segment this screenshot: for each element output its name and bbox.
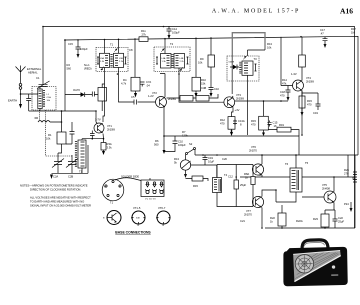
svg-text:R24: R24 bbox=[344, 168, 349, 172]
svg-text:4.7k: 4.7k bbox=[121, 82, 127, 86]
trimmer C1 bbox=[37, 81, 50, 89]
svg-text:2N408: 2N408 bbox=[322, 187, 330, 191]
IF transformer T4 detector bbox=[227, 56, 259, 81]
svg-text:R14: R14 bbox=[282, 78, 287, 82]
svg-text:C15: C15 bbox=[68, 42, 73, 46]
wavy pointer line bbox=[115, 178, 150, 181]
cap C7B bbox=[90, 131, 95, 139]
svg-text:R1: R1 bbox=[48, 133, 52, 137]
wire osc coil top to emitter join bbox=[82, 139, 104, 140]
svg-text:27k: 27k bbox=[142, 33, 147, 37]
svg-text:R12: R12 bbox=[220, 118, 225, 122]
svg-text:P24: P24 bbox=[344, 202, 349, 206]
svg-text:470: 470 bbox=[251, 123, 256, 127]
transistor VT7 bbox=[244, 196, 264, 216]
wire VT4 emitter along bbox=[302, 93, 318, 100]
wide resistor pair R8 R9 bbox=[180, 96, 193, 102]
notes text bbox=[20, 184, 91, 208]
svg-text:R9: R9 bbox=[200, 57, 204, 61]
svg-text:SIGNAL INPUT ON A 20,000 OHMS/: SIGNAL INPUT ON A 20,000 OHMS/VOLT METER bbox=[30, 204, 91, 208]
transistor VT5 bbox=[322, 183, 336, 203]
svg-text:100μF: 100μF bbox=[178, 143, 186, 147]
switch S2 bbox=[186, 153, 188, 155]
grille texture bbox=[295, 252, 340, 279]
svg-text:+4V: +4V bbox=[235, 108, 240, 112]
cap C14 on top rail bbox=[167, 26, 172, 35]
base connection circle 2 bbox=[131, 206, 146, 227]
wire VT4 collector to audio bbox=[301, 91, 303, 136]
wire detector rail bbox=[164, 136, 299, 155]
svg-text:R10: R10 bbox=[201, 78, 206, 82]
svg-text:R8A: R8A bbox=[244, 172, 249, 176]
output transformer T6 bbox=[285, 162, 302, 192]
svg-text:120k: 120k bbox=[182, 134, 188, 138]
wire second rail bbox=[65, 36, 358, 155]
base connection circle 1 bbox=[103, 211, 121, 226]
svg-text:T6: T6 bbox=[285, 162, 289, 166]
volume pot R13 bbox=[174, 157, 191, 170]
svg-text:L5B: L5B bbox=[119, 58, 123, 60]
svg-text:OA79: OA79 bbox=[229, 61, 235, 64]
resistor R15B bbox=[259, 116, 269, 130]
svg-text:R23: R23 bbox=[313, 217, 318, 221]
svg-text:100μF: 100μF bbox=[172, 31, 180, 35]
svg-text:VT1: VT1 bbox=[107, 124, 112, 128]
svg-text:C18: C18 bbox=[280, 90, 285, 94]
svg-text:1-2V: 1-2V bbox=[148, 94, 154, 98]
VT7 base stub bbox=[252, 201, 254, 203]
svg-text:C5: C5 bbox=[131, 95, 135, 99]
svg-text:2N269: 2N269 bbox=[306, 80, 314, 84]
svg-text:A.W.A. MODEL 157-P: A.W.A. MODEL 157-P bbox=[212, 9, 300, 15]
svg-text:ALL VOLTAGES ARE NEGATIVE WITH: ALL VOLTAGES ARE NEGATIVE WITH RESPECT bbox=[30, 196, 91, 200]
wire VT7 collector bbox=[262, 190, 276, 228]
svg-text:R11: R11 bbox=[141, 29, 146, 33]
wire audio mid rail bbox=[240, 176, 355, 178]
wire VT4 collector bbox=[301, 37, 303, 81]
svg-text:C12: C12 bbox=[228, 175, 233, 179]
svg-text:NOTES—ARROWS ON POTENTIOMETERS: NOTES—ARROWS ON POTENTIOMETERS INDICATE bbox=[20, 184, 88, 188]
svg-text:R17: R17 bbox=[351, 27, 356, 31]
resistor R3 bbox=[98, 88, 107, 102]
svg-text:VT5: VT5 bbox=[322, 183, 327, 187]
wire T4 primary top bbox=[248, 50, 266, 56]
svg-text:R3A: R3A bbox=[107, 142, 112, 146]
svg-text:470: 470 bbox=[280, 94, 285, 98]
svg-text:VT6: VT6 bbox=[251, 145, 256, 149]
radio knob bbox=[332, 265, 335, 268]
svg-text:C2B: C2B bbox=[68, 175, 73, 179]
wire VT3 collector bbox=[231, 96, 234, 97]
mixer base rail bbox=[29, 110, 96, 112]
svg-text:1k: 1k bbox=[270, 220, 273, 224]
svg-text:C19: C19 bbox=[208, 156, 213, 160]
radio dial bbox=[295, 254, 314, 273]
grille diagonal trim bbox=[294, 256, 342, 282]
wire T4 bottom to detector rail bbox=[247, 75, 249, 135]
svg-text:8: 8 bbox=[240, 123, 242, 127]
svg-text:2N269: 2N269 bbox=[168, 97, 176, 101]
svg-text:R13: R13 bbox=[267, 42, 272, 46]
VT3 emitter resistor R12 bbox=[232, 108, 234, 117]
svg-text:T2: T2 bbox=[170, 42, 174, 46]
svg-text:47k: 47k bbox=[282, 82, 287, 86]
svg-text:B: B bbox=[163, 225, 165, 227]
wire audio supply rail bbox=[195, 154, 358, 156]
resistor R1 bbox=[57, 132, 66, 144]
svg-text:C17: C17 bbox=[320, 28, 325, 32]
VT4 emitter resistor bbox=[301, 91, 303, 97]
transistor VT6 bbox=[249, 145, 264, 176]
svg-text:R13: R13 bbox=[174, 157, 179, 161]
aerial coil L1 assembly bbox=[32, 87, 56, 111]
svg-text:C10: C10 bbox=[178, 140, 183, 144]
svg-text:25μF: 25μF bbox=[338, 220, 345, 224]
wire antenna to coil bbox=[21, 93, 38, 95]
cap C20 bbox=[203, 155, 208, 165]
cap C22 bbox=[333, 215, 338, 225]
wire audio bottom rail bbox=[265, 227, 355, 229]
svg-text:2N270: 2N270 bbox=[244, 213, 252, 217]
svg-text:C7A: C7A bbox=[146, 80, 151, 84]
wire T5 secondary to VT6 VT7 bases bbox=[217, 165, 253, 207]
resistor R23 bbox=[321, 214, 329, 227]
svg-text:R2: R2 bbox=[67, 63, 71, 67]
radio body bbox=[283, 247, 348, 287]
svg-text:1-3V: 1-3V bbox=[291, 72, 297, 76]
svg-text:EXTERNAL: EXTERNAL bbox=[27, 67, 42, 71]
resistor R10 drop bbox=[195, 38, 197, 77]
svg-text:3.3k: 3.3k bbox=[107, 146, 113, 150]
svg-text:C1A: C1A bbox=[47, 96, 52, 99]
svg-text:10k: 10k bbox=[198, 61, 203, 65]
svg-text:R6: R6 bbox=[155, 139, 159, 143]
resistor R16 on collector bbox=[299, 55, 306, 67]
svg-text:OA70: OA70 bbox=[73, 88, 80, 92]
resistor R19 bbox=[277, 127, 291, 132]
gang dashed coupling bbox=[39, 110, 72, 156]
svg-text:B: B bbox=[138, 225, 140, 227]
wire T3 primary top bbox=[164, 39, 166, 54]
svg-text:C10: C10 bbox=[214, 87, 219, 91]
svg-text:VT6-7: VT6-7 bbox=[158, 206, 166, 210]
radio handle bbox=[302, 240, 328, 250]
svg-text:C4B: C4B bbox=[201, 86, 206, 90]
earth arrow right bbox=[350, 202, 352, 208]
AVC filter components near rail bbox=[300, 36, 302, 38]
svg-text:15k: 15k bbox=[201, 82, 206, 86]
svg-text:C13A: C13A bbox=[238, 119, 245, 123]
base bias resistor R21 bbox=[251, 177, 255, 185]
core dashes bbox=[43, 91, 45, 107]
svg-text:2N270: 2N270 bbox=[249, 149, 257, 153]
svg-text:470: 470 bbox=[220, 122, 225, 126]
svg-text:VT3: VT3 bbox=[236, 93, 241, 97]
wire VT4 base bbox=[281, 37, 293, 86]
svg-text:10μF: 10μF bbox=[208, 160, 215, 164]
svg-text:R4: R4 bbox=[123, 78, 127, 82]
wire VT1 base bbox=[96, 111, 97, 123]
svg-text:25μF: 25μF bbox=[240, 183, 247, 187]
valve socket circle bbox=[102, 179, 124, 204]
series cap C6 bbox=[92, 92, 98, 97]
wire coil top to rail bbox=[42, 27, 44, 82]
wire T2 sec top bbox=[118, 39, 120, 53]
wire T2 sec bottom to VT2 base bbox=[119, 68, 156, 103]
cap C2 to rail bbox=[26, 94, 31, 111]
svg-text:1k: 1k bbox=[245, 176, 248, 180]
resistor R5 drop bbox=[134, 39, 136, 77]
svg-text:R22A: R22A bbox=[296, 219, 303, 223]
grille top highlight bbox=[293, 251, 340, 255]
wire T2 primary top bbox=[104, 40, 106, 54]
wire T3 sec to VT3 base bbox=[179, 68, 224, 102]
VT6 base stub bbox=[252, 169, 254, 171]
svg-text:T1: T1 bbox=[110, 43, 114, 47]
svg-text:5k: 5k bbox=[174, 161, 177, 165]
svg-text:2N269: 2N269 bbox=[236, 97, 244, 101]
svg-text:E: E bbox=[118, 223, 120, 225]
svg-text:C14: C14 bbox=[172, 27, 177, 31]
svg-text:C22: C22 bbox=[338, 216, 343, 220]
transistor VT4 bbox=[293, 76, 315, 91]
emitter resistor R3A bbox=[101, 143, 106, 151]
AGC feedback wire bbox=[235, 100, 288, 102]
cap C7 bbox=[140, 82, 145, 87]
svg-text:R15: R15 bbox=[307, 99, 312, 103]
svg-text:S2: S2 bbox=[189, 142, 193, 146]
driver transformer T5 bbox=[213, 173, 228, 193]
wire thick AGC link bbox=[232, 33, 265, 94]
svg-text:C21: C21 bbox=[240, 219, 245, 223]
svg-text:L5A: L5A bbox=[100, 57, 104, 60]
base connection circle 3 bbox=[156, 206, 171, 227]
ground arrow osc bbox=[50, 175, 53, 180]
cap C11 bbox=[209, 67, 214, 93]
cap C19 right bbox=[316, 100, 321, 110]
transistor VT3 bbox=[224, 93, 245, 112]
brand speck bbox=[331, 274, 338, 276]
svg-text:2N269: 2N269 bbox=[107, 128, 115, 132]
socket box bbox=[141, 180, 164, 201]
resistor R9 vertical mid bbox=[208, 55, 215, 67]
svg-text:100μF: 100μF bbox=[80, 47, 88, 51]
radio cabinet photo bbox=[282, 239, 348, 286]
svg-text:C15: C15 bbox=[273, 121, 278, 125]
svg-text:560: 560 bbox=[154, 143, 159, 147]
IF transformer T2 bbox=[96, 43, 128, 72]
speaker coil right bbox=[347, 155, 349, 177]
svg-text:10k: 10k bbox=[267, 46, 272, 50]
svg-text:C8: C8 bbox=[129, 48, 133, 52]
svg-text:560: 560 bbox=[67, 67, 72, 71]
svg-text:VT1-5: VT1-5 bbox=[133, 206, 141, 210]
svg-text:10k: 10k bbox=[46, 137, 51, 141]
svg-text:R22: R22 bbox=[270, 216, 275, 220]
svg-text:AERIAL: AERIAL bbox=[28, 71, 38, 75]
bypass C12 bbox=[234, 180, 238, 189]
svg-text:R19: R19 bbox=[279, 123, 284, 127]
svg-text:R15: R15 bbox=[251, 119, 256, 123]
svg-text:.04: .04 bbox=[146, 84, 150, 88]
svg-text:L1: L1 bbox=[47, 94, 50, 96]
svg-text:10k: 10k bbox=[47, 100, 51, 102]
svg-text:No.1: No.1 bbox=[84, 63, 90, 67]
svg-text:C19: C19 bbox=[313, 111, 318, 115]
svg-text:470: 470 bbox=[307, 103, 312, 107]
wire osc coil bottom bbox=[52, 145, 89, 173]
svg-text:.47: .47 bbox=[320, 32, 324, 36]
svg-text:C20: C20 bbox=[222, 157, 227, 161]
resistor R11 on rail bbox=[139, 37, 148, 42]
svg-text:C1: C1 bbox=[36, 76, 40, 80]
wire top rail B+ bbox=[43, 27, 355, 229]
svg-text:R7: R7 bbox=[182, 130, 186, 134]
bias resistor bottom left bbox=[278, 213, 286, 226]
svg-text:VT7: VT7 bbox=[246, 209, 251, 213]
svg-text:EARTH: EARTH bbox=[8, 99, 17, 103]
svg-text:BASE CONNECTIONS: BASE CONNECTIONS bbox=[115, 231, 151, 235]
wire coil bottom bbox=[39, 109, 41, 112]
svg-text:VT4: VT4 bbox=[306, 76, 311, 80]
tuning gang C2A bbox=[52, 153, 78, 173]
svg-text:DIRECTION OF CLOCKWISE ROTATIO: DIRECTION OF CLOCKWISE ROTATION. bbox=[30, 188, 81, 192]
svg-text:A16: A16 bbox=[340, 7, 353, 16]
svg-text:T5: T5 bbox=[305, 161, 309, 165]
long vertical from rail2 bbox=[64, 40, 66, 111]
svg-text:T3: T3 bbox=[254, 57, 258, 61]
emitter R6 + bypass C10 bbox=[163, 107, 165, 151]
link connector bbox=[19, 84, 22, 87]
svg-text:L6A: L6A bbox=[162, 57, 166, 60]
osc feedback coil L2 bbox=[38, 121, 50, 123]
wire VT6 collector emitter bbox=[261, 155, 263, 177]
wire antenna down bbox=[20, 89, 22, 104]
cap C15 with ground bbox=[76, 40, 81, 54]
svg-text:270: 270 bbox=[344, 172, 349, 176]
wire VT2 collector up bbox=[164, 74, 166, 98]
antenna bbox=[16, 66, 26, 84]
resistor R15A bottom bbox=[192, 176, 203, 181]
svg-text:16: 16 bbox=[274, 124, 277, 128]
radio grille wedge bbox=[293, 251, 341, 282]
oscillator coil T1 bbox=[75, 140, 86, 174]
cap C4 beside R1 bbox=[66, 122, 75, 144]
IF transformer T3 bbox=[154, 42, 190, 72]
svg-text:T1: T1 bbox=[110, 201, 114, 205]
svg-text:9V: 9V bbox=[352, 177, 355, 181]
svg-text:V1, V2, V3: V1, V2, V3 bbox=[145, 199, 156, 201]
svg-text:TO EARTH AND ARE MEASURED WITH: TO EARTH AND ARE MEASURED WITH NO bbox=[30, 200, 84, 204]
svg-text:548: 548 bbox=[136, 218, 140, 220]
wire base rail T2 T3 bottom join bbox=[103, 68, 165, 123]
svg-text:(RED): (RED) bbox=[84, 67, 92, 71]
svg-text:R15: R15 bbox=[193, 184, 198, 188]
coil L1 winding bbox=[38, 89, 42, 109]
transistor VT1 bbox=[94, 118, 115, 134]
svg-text:L6B: L6B bbox=[180, 58, 184, 60]
transistor VT2 bbox=[152, 91, 176, 108]
svg-text:C2A: C2A bbox=[53, 175, 58, 179]
svg-text:B: B bbox=[103, 218, 105, 220]
